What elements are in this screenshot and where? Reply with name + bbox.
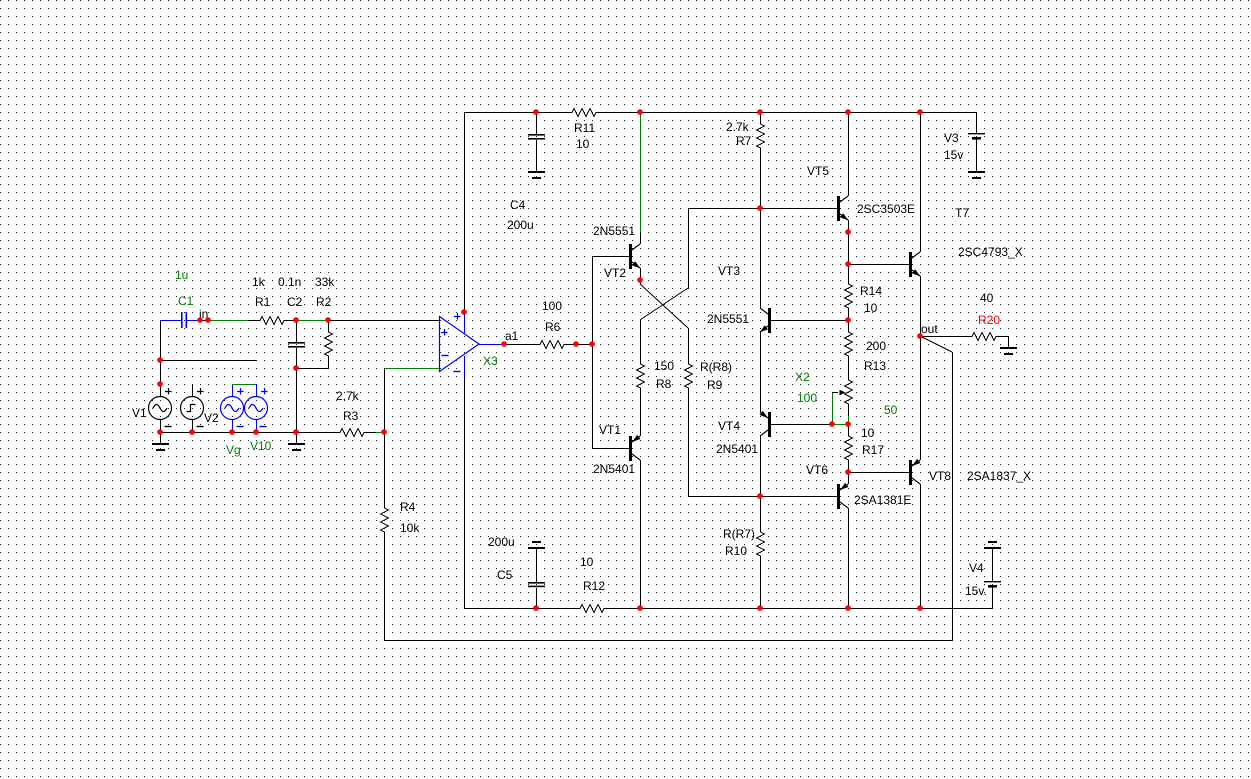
svg-text:R(R7): R(R7) [723, 527, 755, 541]
svg-text:2N5551: 2N5551 [593, 224, 635, 238]
wire inverting node down to R3/R4 junction [384, 368, 386, 432]
transistor VT5 2SC3503E [837, 196, 840, 221]
svg-text:R20: R20 [978, 313, 1000, 327]
wire R14 top lead [848, 264, 850, 272]
battery V3 15v [976, 112, 978, 134]
wire C2 bottom column to source rail [296, 368, 298, 432]
wire node-208 column x=688 [688, 208, 690, 288]
svg-text:2N5401: 2N5401 [716, 442, 758, 456]
wire R4 top lead [384, 432, 386, 496]
junction dots source rail [157, 429, 163, 435]
svg-text:X3: X3 [483, 354, 498, 368]
transistor VT7 2SC4793_X [909, 252, 912, 277]
resistor R1 [248, 317, 296, 325]
wire left loop lower (op-amp V- to bottom rail) [464, 377, 466, 608]
svg-text:V10: V10 [250, 439, 272, 453]
svg-text:C2: C2 [287, 295, 303, 309]
wire R8 top lead [640, 320, 642, 352]
transistor VT3 2N5551 (mirrored) [768, 308, 771, 333]
svg-text:2SA1837_X: 2SA1837_X [967, 469, 1031, 483]
wire VT4 collector node to VT6 base [688, 496, 837, 498]
svg-text:200u: 200u [488, 535, 515, 549]
wire R2 bottom to C2 column [296, 368, 328, 370]
svg-text:R8: R8 [656, 377, 672, 391]
svg-text:R7: R7 [736, 134, 752, 148]
svg-text:C4: C4 [510, 198, 526, 212]
wire VT6 emitter [848, 472, 850, 484]
wire VT7 base [848, 264, 909, 266]
svg-text:VT6: VT6 [806, 463, 828, 477]
svg-text:C5: C5 [497, 568, 513, 582]
svg-text:V2: V2 [204, 411, 219, 425]
svg-text:R13: R13 [864, 359, 886, 373]
wire VT1/VT2 base column x=592 [592, 256, 594, 448]
svg-text:100: 100 [797, 391, 817, 405]
svg-text:200: 200 [866, 339, 886, 353]
capacitor C4 [536, 112, 538, 134]
resistor R2 [325, 320, 333, 368]
svg-text:100: 100 [542, 299, 562, 313]
wire R8 bottom to VT1 emitter [640, 400, 642, 436]
svg-text:10: 10 [864, 301, 878, 315]
transistor VT2 2N5551 [629, 244, 632, 269]
junction dot op-amp V+ [461, 309, 467, 315]
svg-text:VT2: VT2 [604, 266, 626, 280]
voltage source Vg [232, 384, 234, 397]
resistor R10 [757, 520, 765, 568]
potentiometer X2 [845, 368, 853, 416]
resistor R7 [757, 112, 765, 160]
capacitor C2 [296, 320, 298, 342]
svg-text:out: out [921, 322, 938, 336]
svg-text:40: 40 [980, 291, 994, 305]
svg-text:R10: R10 [725, 544, 747, 558]
wire input node column x=160 [160, 320, 162, 384]
svg-text:2.7k: 2.7k [726, 120, 750, 134]
svg-text:R1: R1 [255, 295, 271, 309]
wire R2 to op-amp + input [328, 320, 439, 322]
svg-text:10k: 10k [400, 521, 420, 535]
svg-text:VT1: VT1 [599, 423, 621, 437]
resistor R4 [381, 496, 389, 544]
svg-text:10: 10 [576, 137, 590, 151]
ground under R20 [1000, 347, 1017, 349]
wire R10 top lead [760, 496, 762, 520]
wire VT6 collector to bottom rail [848, 508, 850, 608]
svg-text:R9: R9 [707, 378, 723, 392]
resistor R17 [845, 424, 853, 472]
svg-text:33k: 33k [315, 275, 335, 289]
wire bottom rail [464, 608, 568, 610]
wire X2 bottom green segment [848, 416, 850, 424]
resistor R8 [637, 352, 645, 400]
wire VT8 emitter to out [920, 336, 922, 460]
wire VT5 base row y=208 [688, 208, 837, 210]
op-amp X3 [440, 317, 480, 372]
svg-text:VT5: VT5 [807, 164, 829, 178]
svg-text:a1: a1 [505, 329, 519, 343]
wire VT1 collector to bottom rail [640, 460, 642, 608]
ground under C2 column [296, 432, 298, 444]
resistor R20 [960, 333, 1008, 341]
wire VT5 collector [848, 112, 850, 196]
resistor R6 [528, 341, 576, 349]
svg-text:C1: C1 [178, 294, 194, 308]
wire R10 bottom lead [760, 568, 762, 608]
wire X2 wiper green drop [832, 392, 834, 424]
svg-text:X2: X2 [795, 370, 810, 384]
svg-text:R17: R17 [862, 443, 884, 457]
resistor R12 [568, 605, 616, 613]
wire VT3 collector [760, 208, 762, 308]
junction dot C2 node [293, 365, 299, 371]
svg-text:T7: T7 [955, 206, 969, 220]
wire stub from node to x=256 [160, 360, 256, 362]
svg-text:Vg: Vg [226, 443, 241, 457]
svg-text:10: 10 [861, 426, 875, 440]
svg-text:R6: R6 [545, 320, 561, 334]
transistor VT4 2N5401 (mirrored) [768, 412, 771, 437]
wire feedback bottom run [384, 640, 952, 642]
wire green link Vg-V10 tops [232, 384, 256, 386]
wire VT7 emitter to out [920, 276, 922, 336]
svg-text:200u: 200u [507, 218, 534, 232]
wire R9 bottom to VT4 collector node [688, 400, 690, 496]
wire VT3 base to R14/R13 node [771, 320, 848, 322]
junction dots R6 row [501, 341, 507, 347]
svg-text:VT8: VT8 [929, 469, 951, 483]
junction dots input row [197, 317, 203, 323]
svg-text:VT4: VT4 [718, 419, 740, 433]
capacitor C1 [160, 320, 182, 322]
wire VT3 emitter to VT4 emitter [760, 332, 762, 412]
ground under V3 [968, 171, 985, 173]
wire out to R20 [920, 336, 960, 338]
svg-text:2.7k: 2.7k [336, 389, 360, 403]
wire op-amp output to R6 [504, 344, 528, 346]
wire in-node green segment [208, 320, 248, 322]
svg-text:V4: V4 [969, 561, 984, 575]
svg-text:2N5551: 2N5551 [707, 312, 749, 326]
ground under C4 [528, 171, 545, 173]
wire op-amp - input green [384, 368, 439, 370]
svg-text:2SC3503E: 2SC3503E [857, 202, 915, 216]
wire feedback diagonal at out [920, 336, 952, 352]
wire feedback vertical from out [952, 352, 954, 640]
svg-text:R11: R11 [574, 121, 595, 135]
svg-text:150: 150 [654, 359, 674, 373]
svg-text:15v: 15v [944, 148, 963, 162]
capacitor C5 [532, 541, 541, 543]
resistor R14 [845, 272, 853, 320]
resistor R13 [845, 320, 853, 368]
svg-text:50: 50 [884, 403, 898, 417]
junction dots bottom rail [533, 605, 539, 611]
svg-text:V3: V3 [944, 131, 959, 145]
svg-text:V1: V1 [132, 406, 147, 420]
wire left loop upper (to op-amp V+) [464, 112, 466, 312]
transistor VT8 2SA1837_X [909, 460, 912, 485]
wire R9 top lead [688, 328, 690, 352]
transistor VT6 2SA1381E [837, 484, 840, 509]
battery V4 15v [988, 541, 997, 543]
wire R3 right green segment [376, 432, 384, 434]
junction dots x=848 column [845, 229, 851, 235]
wire VT8 collector to bottom rail [920, 484, 922, 608]
svg-text:R(R8): R(R8) [700, 360, 732, 374]
wire VT8 base [848, 472, 909, 474]
junction dot out [917, 333, 923, 339]
voltage source V2 [192, 384, 194, 397]
wire in-node to R1 (black) [200, 320, 208, 322]
wire VT2 collector green [640, 112, 642, 232]
svg-text:2SC4793_X: 2SC4793_X [958, 245, 1023, 259]
wire R6 to VT1/VT2 base column [576, 344, 592, 346]
voltage source V10 [256, 384, 258, 397]
svg-text:2N5401: 2N5401 [593, 462, 635, 476]
svg-text:0.1n: 0.1n [278, 275, 301, 289]
wire VT5 emitter [848, 220, 850, 232]
svg-text:15v.: 15v. [965, 584, 987, 598]
wire source bottom rail [160, 432, 328, 434]
wire VT2 emitter to junction [640, 268, 642, 284]
junction dots top rail [533, 109, 539, 115]
wire X2 wiper green link [832, 424, 848, 426]
ground under V1 [160, 432, 162, 444]
junction dot VT2 emitter [637, 277, 643, 283]
wire diagonal node-208 to R8 [640, 288, 688, 320]
wire VT7 collector [920, 112, 922, 252]
svg-text:R12: R12 [583, 579, 605, 593]
transistor VT1 2N5401 [629, 436, 632, 461]
wire diagonal VT2 emitter to R9 [640, 284, 688, 328]
wire R1 to R2 green segment [296, 320, 328, 322]
junction dots input column x=160 [157, 357, 163, 363]
wire top rail [464, 112, 536, 114]
wire VT4 base [771, 424, 832, 426]
svg-text:R14: R14 [860, 284, 882, 298]
svg-text:10: 10 [580, 555, 594, 569]
junction dot R7 bottom [757, 205, 763, 211]
wire VT2 collector black tail [640, 232, 642, 244]
svg-text:1k: 1k [252, 275, 266, 289]
svg-text:R3: R3 [343, 409, 359, 423]
svg-text:R4: R4 [400, 500, 416, 514]
resistor R3 [328, 429, 376, 437]
svg-text:2SA1381E: 2SA1381E [854, 493, 911, 507]
wire VT4 collector [760, 436, 762, 496]
voltage source V1 [160, 384, 162, 397]
svg-text:R2: R2 [316, 295, 332, 309]
wire R7 bottom lead [760, 160, 762, 208]
wire R4 bottom to feedback run [384, 544, 386, 640]
wire VT5 emitter node to VT7 base node [848, 232, 850, 264]
svg-text:VT3: VT3 [718, 264, 740, 278]
junction dot VT4 collector [757, 493, 763, 499]
svg-text:1u: 1u [175, 268, 188, 282]
resistor R9 [685, 352, 693, 400]
resistor R11 [560, 109, 608, 117]
wire VT1 base [592, 448, 629, 450]
wire VT2 base [592, 256, 629, 258]
